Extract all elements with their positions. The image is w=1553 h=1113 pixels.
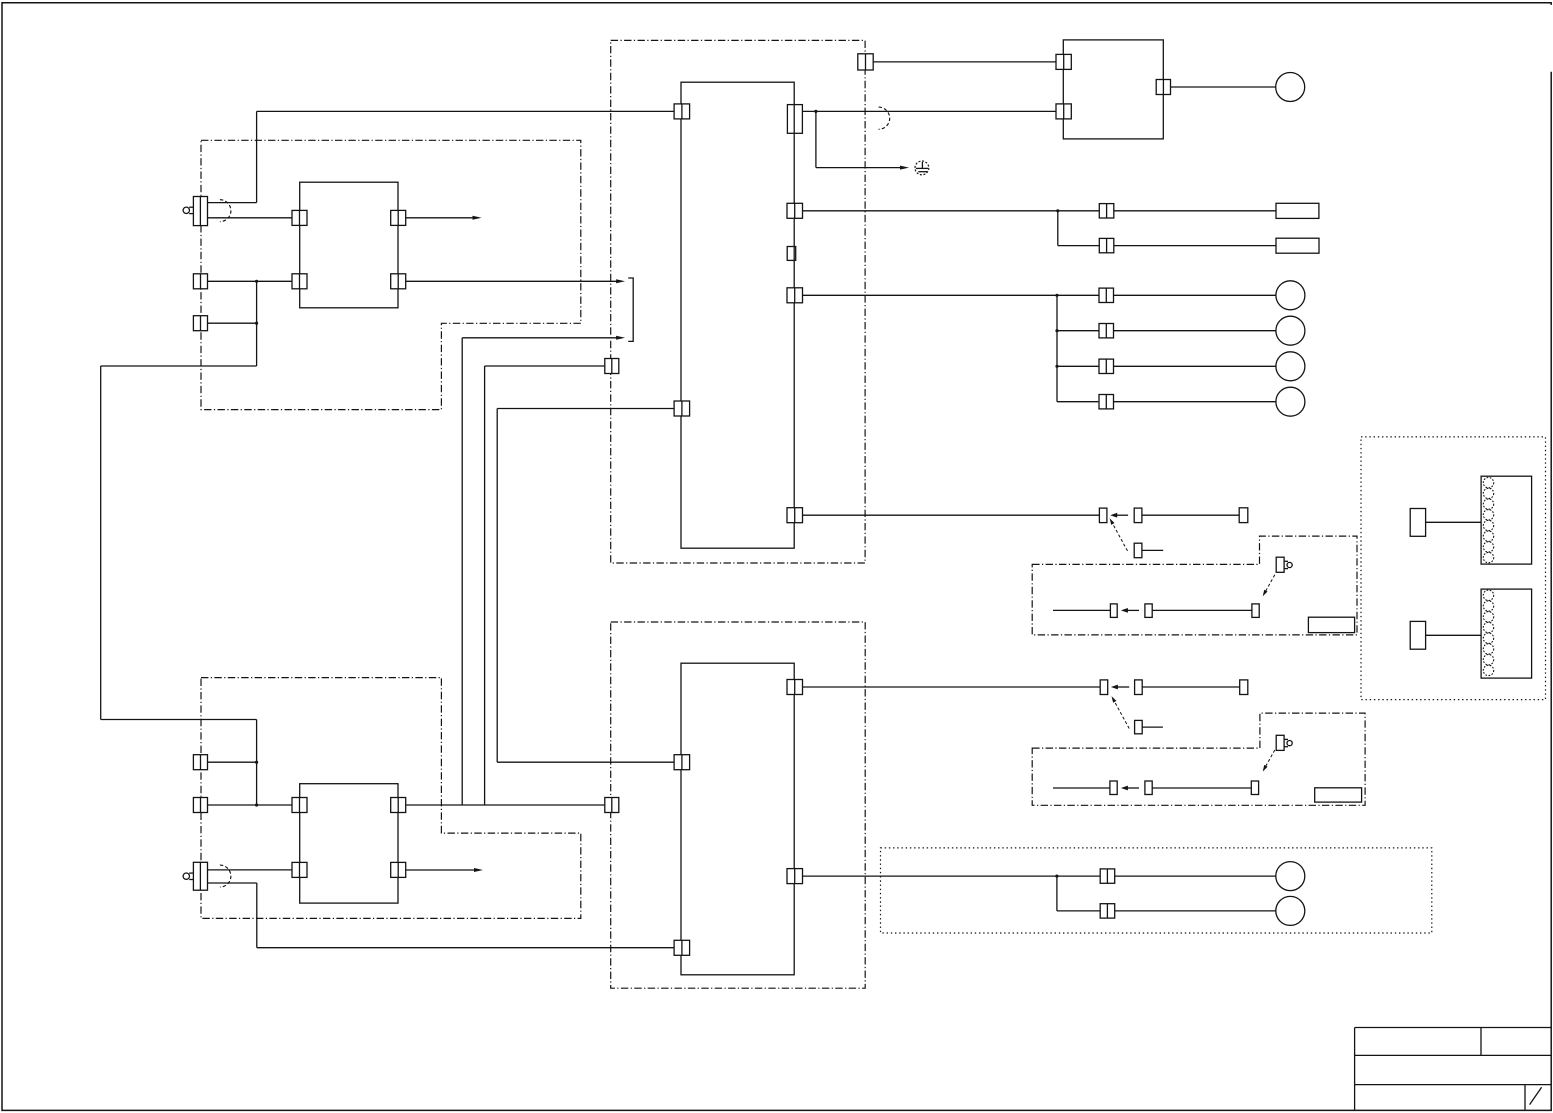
boundary pin X1.1 <box>193 274 207 289</box>
wire lamp rail <box>803 294 1100 296</box>
inline connector pin F1a <box>1110 781 1117 795</box>
boundary pin X2.1 <box>605 359 619 374</box>
junction at (1057.8,210.8) <box>1056 209 1059 212</box>
alternate leader arrow C1 <box>1110 518 1128 551</box>
wire X2.2 to U3 upper <box>873 61 1056 63</box>
enclosure boundary (top-left sensor module) <box>201 140 581 409</box>
wire to lamp H4 <box>1114 365 1276 367</box>
wire bottom lamp rail <box>803 875 1101 877</box>
fuse holder A2 <box>1276 238 1319 253</box>
wire to lamp H7 <box>1115 910 1276 912</box>
pin U3 left 1 <box>1056 54 1071 69</box>
pin U1 left 2 <box>292 274 307 289</box>
control unit U4 (bottom-center) <box>681 663 794 975</box>
control unit U2 (top-center) <box>681 82 794 548</box>
junction at (1057,295.3) <box>1055 294 1058 297</box>
junction at (1057,330.7) <box>1055 329 1058 332</box>
pin U3 left 2 <box>1056 104 1071 119</box>
wire lamp branch column <box>1056 295 1058 401</box>
pin U1 left 1 <box>292 210 307 225</box>
junction at (256.6,762.2) <box>255 761 258 764</box>
pin U2 right 2 <box>787 203 803 218</box>
inline connector pin D1b <box>1135 680 1143 695</box>
plug direction arrow E1 <box>1121 608 1139 613</box>
enclosure boundary (bottom-left sensor module) <box>201 678 581 919</box>
label frame E <box>1308 617 1354 632</box>
wire J2 to header <box>1426 634 1482 636</box>
pin U1 right 1 <box>391 210 406 225</box>
terminator pin C1 <box>1239 508 1248 523</box>
pin U4 right 1 <box>787 680 803 695</box>
wire module F in <box>1053 787 1110 789</box>
connector pin F2 <box>1251 781 1258 795</box>
junction at (1056.9,876.1) <box>1055 875 1058 878</box>
wire B2 lower to U4 <box>208 883 675 948</box>
wire U5 output arrow <box>406 868 484 872</box>
lamp H3 <box>1276 316 1305 345</box>
pin U5 left 1 <box>292 798 307 813</box>
relay box U3 (top-right) <box>1063 40 1163 139</box>
junction at (256.6,805) <box>255 803 258 806</box>
wire bottom lamp branch <box>1057 876 1100 911</box>
leader arrow B3 <box>1263 575 1275 597</box>
sensor B3 (plug) <box>1276 557 1292 572</box>
pin U2 right 3 <box>787 288 803 303</box>
wire to lamp H5 <box>1114 401 1276 403</box>
boundary pin X1.2 <box>193 316 207 331</box>
pin U2 right 4 <box>787 508 803 523</box>
wire data line A cont <box>1142 514 1239 516</box>
junction at (256.6,323.2) <box>255 322 258 325</box>
wire lamp branch 2 <box>1057 330 1099 332</box>
junction at (815.9,111.4) <box>814 110 817 113</box>
wire arrow 3 from riser <box>462 336 625 805</box>
wire bus 3 <box>497 409 674 763</box>
wire to lamp H3 <box>1114 330 1276 332</box>
stub wire C1c <box>1142 549 1163 551</box>
wire X3.2 to U5 <box>208 804 293 806</box>
inline connector pin E1a <box>1110 604 1117 618</box>
inline pin pair G2 <box>1100 904 1115 918</box>
lamp H2 <box>1276 281 1305 310</box>
leader arrow B4 <box>1263 750 1275 772</box>
boundary pin X3.2 <box>193 798 207 813</box>
pin U4 left 1 <box>674 755 690 770</box>
wire bus3 to U4 <box>497 761 674 763</box>
wire U3 to lamp H1 <box>1171 86 1276 88</box>
option boundary (right connector group) <box>1361 437 1546 700</box>
enclosure boundary (lower-right connector module) <box>1032 713 1365 805</box>
inline pin pair B1 <box>1099 288 1114 302</box>
wire data line A <box>803 514 1100 516</box>
boundary pin X3.3 <box>605 798 619 813</box>
wire U5 to buses <box>406 804 605 806</box>
plug direction arrow C1 <box>1110 513 1128 518</box>
wire data line B cont <box>1142 686 1240 688</box>
inline connector pin C1a <box>1099 508 1107 522</box>
pin U4 left 2 <box>674 940 690 955</box>
wire bus 2 <box>485 366 605 805</box>
wire B2 upper to U5 <box>208 869 293 871</box>
harness mating arc <box>879 107 890 129</box>
wire X3.1 to riser <box>208 761 257 763</box>
boundary pin X3.1 <box>193 755 207 770</box>
plug direction arrow D1 <box>1111 685 1129 690</box>
alternate pin D1c <box>1135 720 1143 733</box>
enclosure boundary (upper-right connector module) <box>1032 536 1357 635</box>
inline pin pair A2 <box>1099 238 1114 252</box>
pin U2 left 1 <box>674 104 690 119</box>
wire lamp branch 4 <box>1057 401 1098 403</box>
pin U4 right 2 <box>787 869 803 884</box>
wire to lamp H6 <box>1115 875 1276 877</box>
inline connector pin F1b <box>1145 781 1152 795</box>
lamp H6 <box>1276 862 1305 891</box>
control unit U1 (top-left) <box>300 182 398 308</box>
pin header J1 socket <box>1481 476 1532 564</box>
wire J1 to header <box>1426 521 1482 523</box>
connector plug J2 <box>1410 621 1425 649</box>
wire supply branch A2 <box>1058 211 1100 246</box>
enclosure boundary (top harness module) <box>611 40 865 563</box>
lamp H1 <box>1276 73 1305 102</box>
title block <box>1355 1028 1551 1111</box>
wire U1 output arrow 2 <box>406 279 626 283</box>
wire module E mid <box>1152 609 1252 611</box>
inline connector pin D1a <box>1100 680 1108 695</box>
connector plug J1 <box>1410 509 1425 537</box>
wire U1 output arrow 1 <box>406 216 482 220</box>
pin U1 right 2 <box>391 274 406 289</box>
control unit U5 (bottom-left) <box>300 784 398 903</box>
wire to chassis ground <box>816 111 909 169</box>
plug direction arrow F1 <box>1121 786 1139 791</box>
junction at (1057,366.3) <box>1055 365 1058 368</box>
sensor B2 (bottom-left) <box>183 862 207 890</box>
wire riser loop left <box>101 281 257 805</box>
wire lamp branch 3 <box>1057 365 1099 367</box>
inline pin pair G1 <box>1100 869 1115 883</box>
terminator pin D1 <box>1240 680 1248 695</box>
lamp H5 <box>1276 387 1305 416</box>
wire to fuse box A2 <box>1114 245 1276 247</box>
wire B1 lower to U1 <box>208 217 293 219</box>
junction at (256.6,281.3) <box>255 280 258 283</box>
wire module E in <box>1053 609 1110 611</box>
enclosure boundary (bottom harness module) <box>611 622 866 988</box>
fuse holder A1 <box>1276 203 1319 218</box>
pin U2 right spare <box>787 247 796 261</box>
sensor B1 (top-left) <box>183 197 207 226</box>
inline pin pair B3 <box>1099 359 1114 373</box>
wire data line B <box>803 686 1101 688</box>
wire U2 to U3 lower <box>802 110 1056 112</box>
wire module F mid <box>1152 787 1251 789</box>
bracket destination marker <box>628 278 633 341</box>
sensor B1 mating face arc <box>220 200 231 222</box>
inline pin pair A1 <box>1099 204 1114 218</box>
pin header J2 socket <box>1481 589 1532 678</box>
ground symbol (protective earth) <box>915 161 929 175</box>
wire to fuse box A1 <box>1114 210 1276 212</box>
wire X1.1 to U1 <box>208 280 293 282</box>
pin U2 left 2 <box>674 401 690 416</box>
alternate pin C1c <box>1134 543 1142 558</box>
option boundary (bottom lamp group) <box>881 848 1432 933</box>
inline connector pin C1b <box>1134 508 1142 522</box>
pin U5 right 1 <box>391 798 406 813</box>
wire B1 upper to U2 pin 1 <box>208 111 676 202</box>
connector pin E2 <box>1252 604 1259 618</box>
lamp H7 <box>1276 896 1305 925</box>
pin U3 right <box>1156 80 1170 95</box>
inline connector pin E1b <box>1145 604 1152 618</box>
stub wire D1c <box>1142 726 1163 728</box>
alternate leader arrow D1 <box>1112 696 1130 728</box>
pin U5 left 2 <box>292 862 307 877</box>
wire to lamp H2 <box>1114 294 1276 296</box>
lamp H4 <box>1276 352 1305 381</box>
label frame F <box>1315 788 1362 802</box>
sensor B4 (plug) <box>1276 735 1292 750</box>
inline pin pair B2 <box>1099 324 1114 338</box>
inline pin pair B4 <box>1099 395 1114 409</box>
sensor B2 mating face arc <box>220 865 231 887</box>
pin U5 right 2 <box>391 862 406 877</box>
pin U2 right 1 (tall) <box>787 105 802 134</box>
wire X1.2 to riser <box>208 322 257 324</box>
wire supply rail A <box>803 210 1100 212</box>
boundary pin X2.2 <box>858 54 873 70</box>
